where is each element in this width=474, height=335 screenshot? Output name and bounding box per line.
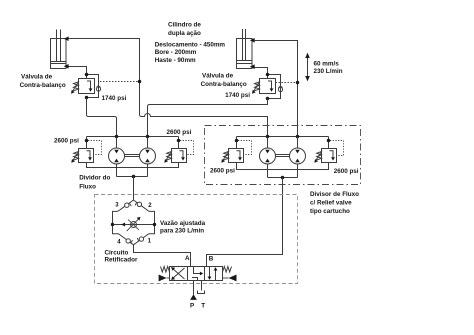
node: M3 inlet bbox=[266, 135, 270, 139]
node: V2 outlet bbox=[266, 97, 270, 101]
pilot line of V2 bbox=[276, 82, 297, 84]
relief valve RV4 (right 2600 psi, cartridge) bbox=[314, 141, 343, 163]
label: Válvula de Contra-balanço (right) bbox=[201, 73, 251, 99]
node: M4 inlet bbox=[296, 135, 300, 139]
node: RV3 pilot tap bbox=[235, 139, 239, 143]
left solenoid arrow bbox=[159, 275, 167, 282]
adjust arrow of V1 bbox=[72, 81, 79, 93]
counterbalance valve V2 (right) bbox=[252, 73, 299, 101]
svg-text:T: T bbox=[201, 303, 205, 310]
svg-text:Fluxo: Fluxo bbox=[79, 184, 96, 191]
flow divider motor M4 bbox=[290, 137, 306, 178]
label: Cilindro de dupla ação bbox=[155, 22, 226, 64]
check valve 4 bbox=[126, 239, 133, 244]
cylinder CYL2 (right, double acting) bbox=[237, 29, 253, 69]
spring of V2 bbox=[255, 82, 260, 91]
svg-text:Bore - 200mm: Bore - 200mm bbox=[155, 49, 197, 56]
flow divider motor M3 bbox=[260, 137, 276, 178]
svg-text:Válvula de: Válvula de bbox=[21, 74, 53, 81]
node: M1 inlet bbox=[115, 135, 119, 139]
wire: V1 outlet to left flow-divider motor M1 bbox=[87, 98, 117, 137]
svg-text:2600 psi: 2600 psi bbox=[334, 168, 359, 175]
node: RV2 pilot tap bbox=[177, 139, 181, 143]
check valve 1 bbox=[137, 237, 143, 241]
node: RV1 pilot tap bbox=[85, 139, 89, 143]
wire: top bus of right divider bbox=[237, 136, 329, 138]
check valve 3 bbox=[125, 203, 132, 208]
svg-text:para 230 L/min: para 230 L/min bbox=[160, 228, 204, 235]
svg-text:Retificador: Retificador bbox=[105, 257, 138, 264]
svg-text:Cilindro de: Cilindro de bbox=[168, 22, 201, 29]
node: pilot tap on right riser bbox=[296, 81, 300, 85]
wire: bus to relief RV3 bbox=[236, 137, 238, 149]
wire: left cylinder cap-end port to counterbalance valve V1 bbox=[66, 67, 87, 79]
bridge outline upper-left bbox=[113, 200, 191, 267]
check valve bypass of V2 bbox=[268, 75, 281, 99]
left box crossed arrows bbox=[172, 268, 185, 279]
flow control valve FC1 bbox=[113, 217, 155, 231]
wire: V2 outlet to right motor M2 of left divider bbox=[148, 99, 268, 137]
wire: bus to relief RV4 bbox=[328, 137, 330, 149]
flow arrow into left cylinder top port bbox=[64, 36, 69, 41]
wire: port A riser bbox=[190, 253, 192, 267]
flow arrow into right cylinder top port bbox=[250, 38, 255, 43]
svg-text:P: P bbox=[190, 303, 194, 310]
shaft between M3 and M4 bbox=[276, 155, 290, 157]
enclosure dash-dot box bbox=[205, 126, 361, 185]
svg-text:Contra-balanço: Contra-balanço bbox=[20, 82, 66, 89]
label: Válvula de Contra-balanço (left) bbox=[20, 74, 127, 102]
wire: bus to relief RV2 bbox=[178, 137, 180, 149]
cylinder CYL1 (left, double acting) bbox=[51, 30, 67, 69]
svg-text:tipo cartucho: tipo cartucho bbox=[310, 208, 350, 215]
center box bbox=[194, 267, 202, 274]
adjust arrow of V2 bbox=[253, 81, 260, 93]
svg-text:B: B bbox=[209, 255, 214, 262]
pressure source triangle P bbox=[190, 294, 197, 300]
node: V2 inlet bbox=[266, 73, 270, 77]
node: bottom bus tap right bbox=[281, 176, 285, 180]
label: Circuito Retificador bbox=[105, 249, 138, 263]
wire: relief outlets link line (cartridge) bbox=[237, 163, 329, 170]
wire: port P riser bbox=[193, 281, 195, 295]
right solenoid arrow bbox=[229, 275, 237, 282]
svg-text:Válvula de: Válvula de bbox=[202, 73, 234, 80]
svg-text:A: A bbox=[185, 255, 190, 262]
right box parallel arrows bbox=[209, 267, 211, 279]
flow divider motor M2 bbox=[140, 137, 156, 177]
pilot line of V1 bbox=[100, 81, 139, 83]
node: pilot tap on rod-end line bbox=[138, 80, 142, 84]
svg-text:Circuito: Circuito bbox=[105, 249, 129, 256]
svg-text:230 L/min: 230 L/min bbox=[314, 68, 343, 75]
tank symbol T bbox=[198, 291, 205, 294]
svg-text:2600 psi: 2600 psi bbox=[54, 137, 79, 144]
left spring bbox=[161, 267, 170, 273]
wire: top bus of left divider bbox=[87, 136, 179, 138]
speed annotation arrow bbox=[305, 53, 310, 82]
svg-text:dupla ação: dupla ação bbox=[168, 30, 201, 37]
wire: tap down to port B bbox=[207, 178, 283, 267]
bridge outline upper-right bbox=[134, 200, 155, 245]
svg-text:Dividor do: Dividor do bbox=[79, 175, 110, 182]
wire: right cylinder cap-end port to counterbalance valve V2 bbox=[252, 68, 268, 79]
node: V1 inlet bbox=[85, 73, 89, 77]
flow arrow into right cylinder bottom port bbox=[250, 64, 255, 69]
check valve 2 bbox=[135, 202, 141, 207]
svg-text:Deslocamento - 450mm: Deslocamento - 450mm bbox=[155, 42, 226, 49]
wire: right cylinder rod-end port to right main riser bbox=[252, 41, 298, 137]
wire: left cylinder rod-end port to right divider, with hop over riser bbox=[66, 39, 268, 137]
svg-text:2600 psi: 2600 psi bbox=[210, 168, 235, 175]
enclosure dashed box bbox=[95, 195, 298, 284]
svg-text:Haste - 90mm: Haste - 90mm bbox=[155, 57, 196, 64]
svg-text:1740 psi: 1740 psi bbox=[102, 95, 127, 102]
spring of V1 bbox=[74, 82, 79, 91]
node: RV4 pilot tap bbox=[327, 139, 331, 143]
right spring bbox=[223, 267, 232, 273]
label: 60 mm/s 230 L/min bbox=[314, 60, 343, 75]
wire: relief outlets link line bbox=[87, 163, 179, 168]
wire: tap down to rectifier bbox=[133, 177, 135, 201]
relief valve RV3 (left 2600 psi, cartridge) bbox=[221, 141, 251, 163]
label: Vazão ajustada para 230 L/min bbox=[160, 220, 206, 235]
node: V1 outlet bbox=[85, 96, 89, 100]
counterbalance valve V1 (left) bbox=[71, 73, 141, 100]
flow arrow into left cylinder bottom port bbox=[64, 64, 69, 69]
svg-text:60 mm/s: 60 mm/s bbox=[314, 60, 340, 67]
shaft between M1 and M2 bbox=[125, 155, 140, 157]
svg-text:1740 psi: 1740 psi bbox=[225, 92, 250, 99]
svg-text:2600 psi: 2600 psi bbox=[167, 129, 192, 136]
check valve bypass of V1 bbox=[87, 75, 99, 98]
svg-text:c/ Relief valve: c/ Relief valve bbox=[310, 200, 352, 207]
wire: port T riser bbox=[201, 281, 203, 291]
node: bridge left vertex bbox=[111, 223, 114, 226]
node: bridge right vertex bbox=[153, 223, 156, 226]
svg-text:Vazão ajustada: Vazão ajustada bbox=[160, 220, 206, 227]
relief valve RV2 (right 2600 psi) bbox=[164, 141, 193, 163]
wire: bottom bus of right divider bbox=[268, 177, 298, 179]
svg-text:Contra-balanço: Contra-balanço bbox=[201, 81, 247, 88]
label: Divisor de Fluxo c/ Relief valve tipo cartucho bbox=[310, 191, 359, 215]
label: Dividor do Fluxo bbox=[79, 175, 110, 191]
wire: bottom bus of left divider bbox=[117, 176, 148, 178]
relief valve RV1 (left 2600 psi) bbox=[71, 141, 101, 163]
svg-text:Divisor de Fluxo: Divisor de Fluxo bbox=[310, 191, 359, 198]
flow divider motor M1 bbox=[109, 137, 125, 177]
node: bottom bus tap bbox=[132, 175, 136, 179]
node: M2 inlet bbox=[146, 135, 150, 139]
wire: bus to relief RV1 bbox=[86, 137, 88, 149]
